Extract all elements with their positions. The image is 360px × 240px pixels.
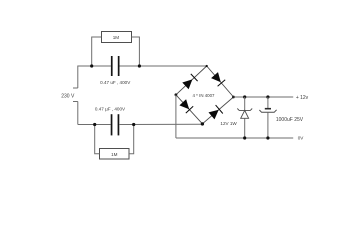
node junction R1 right on top rail — [138, 64, 141, 67]
node junction R2 right on bottom AC rail — [132, 123, 135, 126]
node junction zener bottom on 0V rail — [243, 136, 246, 139]
svg-text:0.47 uF , 400V: 0.47 uF , 400V — [100, 80, 131, 85]
node junction capacitor top on +12v rail — [266, 95, 269, 98]
wire R2 left lead — [95, 125, 100, 154]
wire +12v top rail from bridge right vertex — [234, 96, 294, 98]
svg-text:4 * IN 4007: 4 * IN 4007 — [193, 93, 216, 98]
svg-text:230 V: 230 V — [61, 93, 75, 99]
svg-text:12V 1W: 12V 1W — [220, 121, 237, 126]
diode D4 cathode bar — [216, 105, 223, 113]
capacitor C3 negative curved plate — [259, 110, 276, 113]
wire left vertical lower — [77, 102, 79, 125]
wire R1 left lead — [92, 37, 102, 66]
capacitor C3 positive plate — [265, 108, 271, 110]
svg-text:1M: 1M — [113, 35, 120, 40]
diode D1 cathode bar — [191, 74, 198, 81]
resistor R1 1M box — [102, 32, 132, 43]
diode D3 cathode bar — [186, 106, 193, 113]
svg-text:1000uF 25V: 1000uF 25V — [276, 117, 304, 123]
node junction R2 left on bottom AC rail — [93, 123, 96, 126]
resistor R2 1M box — [100, 149, 130, 160]
diode D2 triangle on T-R side — [211, 72, 221, 82]
diode D1 triangle on L-T side — [182, 79, 192, 89]
wire capacitor C3 top lead — [267, 97, 269, 108]
wire zener bottom lead — [244, 118, 246, 138]
wire bridge side L to B — [176, 95, 203, 124]
svg-text:1M: 1M — [111, 152, 118, 157]
wire bridge side T to R — [207, 66, 234, 97]
wire R2 right lead — [129, 125, 134, 154]
node junction zener top on +12v rail — [243, 95, 246, 98]
wire bottom AC rail right segment to bridge bottom vertex — [120, 123, 203, 125]
wire bridge left vertex down crossing AC rail — [175, 95, 177, 138]
capacitor C1 right plate — [118, 56, 120, 76]
capacitor C1 left plate — [111, 56, 113, 76]
node bridge right vertex — [232, 96, 235, 99]
svg-text:0.47 µF , 400V: 0.47 µF , 400V — [95, 106, 126, 111]
wire bridge side B to R — [202, 97, 233, 124]
wire bridge side L to T — [176, 66, 207, 95]
diode D3 triangle on L-B side — [179, 99, 189, 109]
diode D2 cathode bar — [218, 80, 226, 87]
node junction R1 left on top rail — [90, 64, 93, 67]
wire top AC rail right segment to bridge — [120, 65, 207, 67]
capacitor C2 left plate — [111, 114, 113, 135]
node junction capacitor bottom on 0V rail — [266, 136, 269, 139]
zener diode ZD1 cathode bar with wings — [237, 109, 252, 111]
wire zener top lead — [244, 97, 246, 110]
terminal tick lower 230V — [73, 101, 78, 103]
wire top AC rail left segment — [78, 65, 111, 67]
wire capacitor C3 bottom lead — [267, 112, 269, 138]
node bridge top vertex — [206, 65, 208, 67]
node bridge left vertex — [175, 93, 178, 96]
svg-text:0V: 0V — [298, 136, 305, 141]
terminal tick upper 230V — [73, 87, 78, 89]
zener diode ZD1 triangle outline — [241, 110, 249, 118]
wire R1 right lead — [132, 37, 140, 66]
diode D4 triangle on B-R side — [209, 110, 219, 120]
node bridge bottom vertex — [201, 122, 204, 125]
capacitor C2 right plate — [118, 114, 120, 135]
wire 0V bottom rail — [176, 137, 293, 139]
wire bottom AC rail left segment — [78, 124, 111, 126]
wire left vertical upper to terminal — [77, 66, 79, 89]
svg-text:+ 12v: + 12v — [296, 95, 309, 101]
